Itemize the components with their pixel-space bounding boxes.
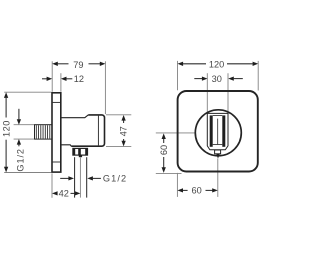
- svg-text:47: 47: [119, 126, 129, 136]
- wire extension line 47 top: [106, 114, 131, 116]
- wire extension line 60 bottom: [156, 173, 182, 175]
- plate corner tangent line bottom: [53, 161, 61, 163]
- threaded nipple G1/2 hatched: [35, 125, 53, 139]
- holder lower tab: [215, 150, 221, 154]
- wire extension line 47 bottom: [106, 146, 131, 148]
- wire extension line top of 120 dim: [4, 91, 51, 93]
- wire extension line 30 left: [206, 73, 208, 113]
- wire extension line nipple top: [14, 124, 35, 126]
- wire extension line bottom 60 center: [217, 159, 219, 197]
- svg-text:120: 120: [1, 120, 11, 137]
- dimension 60 vertical left: [159, 133, 169, 173]
- wire extension line bottom 60 left: [176, 173, 178, 197]
- dimension 120 vertical left: [1, 92, 11, 172]
- circle boss: [195, 110, 241, 156]
- svg-text:60: 60: [159, 145, 169, 155]
- svg-text:12: 12: [74, 74, 84, 84]
- wire extension line right of 12 dim: [60, 73, 62, 92]
- dimension 47 vertical right: [119, 115, 129, 146]
- wire extension line 60 top at circle center: [156, 132, 196, 134]
- wire extension line bottom of 120 dim: [4, 172, 51, 174]
- svg-text:42: 42: [59, 189, 69, 199]
- dimension 30: [194, 74, 243, 84]
- holder arm top edge: [62, 115, 89, 118]
- svg-text:79: 79: [73, 60, 83, 70]
- wire extension line nipple bottom: [14, 138, 35, 140]
- wire extension line right of 79 dim: [104, 61, 106, 114]
- nut lower collar: [79, 155, 82, 157]
- label G1/2 hose outlet: [60, 174, 127, 184]
- outlet pipe left edge: [74, 157, 76, 197]
- holder cup front view: [207, 113, 228, 149]
- dimension 60 bottom: [177, 186, 217, 196]
- plate corner tangent line top: [53, 101, 61, 103]
- svg-text:120: 120: [209, 60, 224, 70]
- wire extension line 42 left: [51, 173, 53, 197]
- wire center line of outlet pipe: [79, 158, 81, 198]
- dimension 120 top: [178, 60, 259, 70]
- wire extension line 120 left: [177, 61, 179, 90]
- holder tip: [216, 154, 220, 159]
- block face line: [97, 116, 99, 146]
- dimension 42 bottom: [52, 189, 80, 199]
- wire extension line left of 79 and 12 dims: [51, 61, 53, 92]
- arm bottom step: [62, 145, 72, 146]
- outlet pipe right edge: [86, 157, 88, 197]
- escutcheon plate side view: [52, 93, 61, 172]
- hose nut: [73, 148, 88, 155]
- svg-text:G1/2: G1/2: [103, 174, 127, 184]
- svg-text:30: 30: [212, 74, 222, 84]
- holder block side view: [71, 115, 104, 146]
- dimension 79: [52, 60, 105, 70]
- label G1/2 wall connection: [16, 109, 26, 172]
- svg-text:60: 60: [191, 186, 201, 196]
- wire extension line 120 right: [257, 61, 259, 91]
- svg-text:G1/2: G1/2: [16, 148, 26, 172]
- wire extension line 30 right: [227, 73, 229, 113]
- escutcheon square plate front view: [178, 91, 258, 172]
- dimension 12: [42, 74, 84, 84]
